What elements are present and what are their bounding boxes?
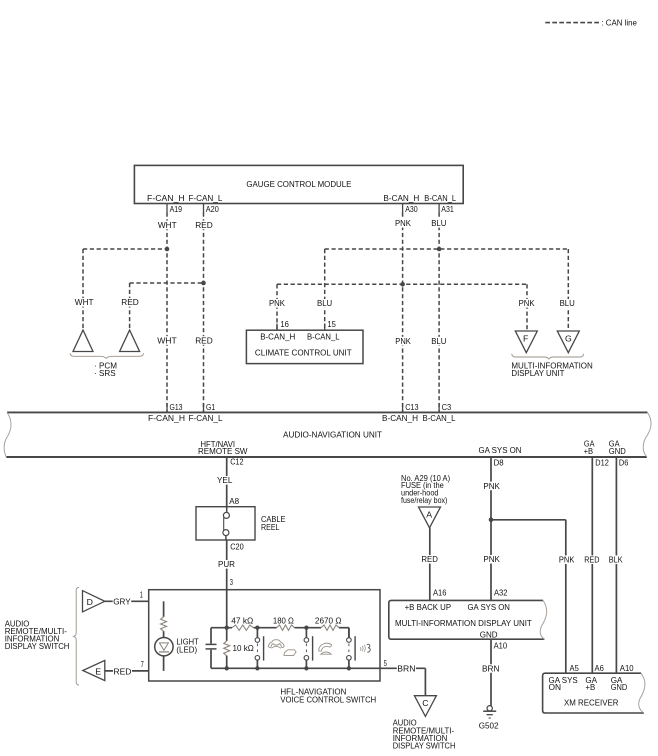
connector triangle G xyxy=(557,331,579,353)
label BLU G xyxy=(559,299,576,308)
svg-text:B-CAN_H: B-CAN_H xyxy=(260,332,295,342)
component box CABLE REEL xyxy=(196,507,255,540)
svg-text:A20: A20 xyxy=(206,204,219,214)
wire RED E to pin 7 xyxy=(105,670,149,672)
svg-text:+B: +B xyxy=(585,682,595,692)
label RED xyxy=(195,221,214,230)
svg-text:PNK: PNK xyxy=(269,298,285,308)
junction dots bus xyxy=(255,626,259,630)
wire RED fuse to A16 xyxy=(429,528,431,601)
connector triangle F xyxy=(515,331,537,353)
label BLU lower mid xyxy=(431,337,447,346)
wire YEL C12 to cable reel xyxy=(226,457,228,507)
svg-text:+B BACK UP: +B BACK UP xyxy=(405,602,452,612)
svg-text:15: 15 xyxy=(327,319,336,329)
svg-text:A10: A10 xyxy=(494,640,508,650)
svg-text:B-CAN_L: B-CAN_L xyxy=(424,193,456,203)
svg-text:F-CAN_H: F-CAN_H xyxy=(147,193,185,203)
svg-text:DISPLAY UNIT: DISPLAY UNIT xyxy=(511,368,565,378)
svg-text:GAUGE CONTROL MODULE: GAUGE CONTROL MODULE xyxy=(246,179,351,189)
cable reel slip ring xyxy=(226,507,228,513)
svg-text:YEL: YEL xyxy=(217,475,233,485)
svg-text:47 kΩ: 47 kΩ xyxy=(231,616,253,626)
underbrace PCM SRS xyxy=(70,353,144,358)
LED lamp LIGHT xyxy=(155,638,173,656)
svg-text:A6: A6 xyxy=(595,663,604,673)
unit box MULTI-INFORMATION DISPLAY UNIT xyxy=(389,600,545,639)
svg-text:C: C xyxy=(422,698,428,708)
svg-text:PNK: PNK xyxy=(395,218,411,228)
svg-text:C3: C3 xyxy=(442,402,452,412)
svg-text:RED: RED xyxy=(121,297,139,307)
svg-text:GND: GND xyxy=(609,446,626,456)
label RED D12 xyxy=(584,555,600,564)
svg-text:fuse/relay box): fuse/relay box) xyxy=(401,495,447,505)
svg-text:A31: A31 xyxy=(441,204,454,214)
svg-text:+B: +B xyxy=(584,446,594,456)
wire GRY D to pin 1 xyxy=(105,600,149,602)
wire BRN pin5 xyxy=(380,667,425,669)
svg-text:C13: C13 xyxy=(405,402,418,412)
unit box XM RECEIVER xyxy=(543,673,644,713)
junction pin3 bus xyxy=(225,626,229,630)
label PNK climate xyxy=(269,299,286,308)
svg-text:DISPLAY SWITCH: DISPLAY SWITCH xyxy=(5,641,70,651)
svg-text:D12: D12 xyxy=(595,458,609,468)
label PNK F xyxy=(518,299,536,308)
svg-text:G: G xyxy=(565,334,572,344)
junction A19 branch xyxy=(165,247,170,252)
svg-text:GND: GND xyxy=(480,629,498,639)
label RED left xyxy=(121,298,140,307)
bus top xyxy=(211,627,232,629)
svg-text:PNK: PNK xyxy=(483,481,500,491)
svg-text:10 kΩ: 10 kΩ xyxy=(233,643,255,653)
connector triangle PCM xyxy=(73,330,93,352)
junction A20 branch xyxy=(201,281,206,286)
svg-text:C20: C20 xyxy=(230,541,244,551)
svg-text:BRN: BRN xyxy=(482,663,500,673)
pin C13 xyxy=(402,403,404,412)
label PNK lower xyxy=(483,555,501,564)
connector box CLIMATE CONTROL UNIT xyxy=(246,330,363,363)
CAN line legend xyxy=(545,22,599,24)
svg-text:5: 5 xyxy=(384,658,387,668)
svg-text:B-CAN_L: B-CAN_L xyxy=(307,332,340,342)
brace audio remote switch xyxy=(74,588,79,686)
svg-text:BLK: BLK xyxy=(609,555,623,565)
junction PNK branch xyxy=(489,518,494,523)
label PUR xyxy=(218,560,236,569)
pin 15 xyxy=(324,324,326,331)
label PNK xyxy=(395,219,412,228)
svg-text:REMOTE SW: REMOTE SW xyxy=(198,446,248,456)
svg-text:D: D xyxy=(87,597,93,607)
switch contact 2 (hang up) xyxy=(305,628,307,638)
unit band AUDIO-NAVIGATION UNIT xyxy=(7,411,647,413)
svg-text:CLIMATE CONTROL UNIT: CLIMATE CONTROL UNIT xyxy=(255,348,352,358)
wire branch to SRS RED xyxy=(130,282,204,284)
svg-text:DISPLAY SWITCH: DISPLAY SWITCH xyxy=(393,741,456,751)
connector triangle C xyxy=(414,696,436,717)
svg-text:A10: A10 xyxy=(620,663,634,673)
junction A31 branch xyxy=(437,247,442,252)
pin G13 xyxy=(166,403,168,412)
svg-text:BRN: BRN xyxy=(397,664,415,674)
svg-text:GRY: GRY xyxy=(113,596,131,606)
svg-text:PNK: PNK xyxy=(559,555,575,565)
svg-text:BLU: BLU xyxy=(317,298,332,308)
wire pin1 to LED xyxy=(163,601,165,617)
svg-text:E: E xyxy=(95,666,101,676)
svg-text:3: 3 xyxy=(230,577,233,587)
connector triangle D xyxy=(83,591,105,612)
switch contact 1 (pick up) xyxy=(256,628,258,638)
svg-text:(LED): (LED) xyxy=(176,645,197,655)
label WHT left xyxy=(74,298,94,307)
svg-text:A30: A30 xyxy=(405,204,418,214)
connector triangle SRS xyxy=(120,330,140,352)
pin A19 xyxy=(166,204,168,213)
label RED lower xyxy=(195,336,214,345)
svg-text:BLU: BLU xyxy=(560,298,575,308)
svg-text:A19: A19 xyxy=(170,204,183,214)
svg-text:B-CAN_H: B-CAN_H xyxy=(383,193,419,203)
label YEL xyxy=(217,476,234,485)
svg-text:XM RECEIVER: XM RECEIVER xyxy=(564,697,619,707)
wire PNK D8 down xyxy=(490,457,492,600)
label BRN pin5 xyxy=(397,664,416,673)
svg-text:RED: RED xyxy=(195,335,213,345)
svg-text:· SRS: · SRS xyxy=(94,368,116,378)
svg-text:C12: C12 xyxy=(230,456,243,466)
svg-text:WHT: WHT xyxy=(157,335,177,345)
svg-text:F-CAN_H: F-CAN_H xyxy=(148,413,185,423)
svg-text:RED: RED xyxy=(195,220,213,230)
wire B-CAN_L A31 (dashed) xyxy=(438,213,440,412)
ground G502 xyxy=(487,706,492,711)
svg-text:B-CAN_H: B-CAN_H xyxy=(382,413,418,423)
resistor 2670 Ohm xyxy=(321,625,339,630)
label BRN gnd xyxy=(482,664,501,673)
svg-text:G502: G502 xyxy=(479,720,499,730)
svg-text:PUR: PUR xyxy=(218,559,235,569)
pin C3 xyxy=(438,403,440,412)
svg-text:180 Ω: 180 Ω xyxy=(273,616,294,626)
svg-text:RED: RED xyxy=(421,554,438,564)
icon phone hang up xyxy=(319,643,332,651)
svg-text:F: F xyxy=(523,334,528,344)
svg-text:VOICE CONTROL SWITCH: VOICE CONTROL SWITCH xyxy=(280,694,376,704)
svg-text:A32: A32 xyxy=(494,588,508,598)
svg-text:G1: G1 xyxy=(206,402,215,412)
svg-text:RED: RED xyxy=(584,555,599,565)
label BLK D6 xyxy=(608,555,623,564)
wire branch to PCM/SRS WHT xyxy=(83,248,167,250)
wire B-CAN_H A30 (dashed) xyxy=(402,213,404,412)
junction A30 branch xyxy=(400,282,405,287)
svg-text:PNK: PNK xyxy=(395,336,411,346)
wire resistor to LED xyxy=(163,631,165,637)
svg-text:REEL: REEL xyxy=(261,522,280,532)
wire RED D12 to XM xyxy=(591,457,593,673)
svg-text:GA SYS ON: GA SYS ON xyxy=(468,602,510,612)
label RED fuse xyxy=(421,555,439,564)
svg-text:MULTI-INFORMATION DISPLAY UNIT: MULTI-INFORMATION DISPLAY UNIT xyxy=(395,618,532,628)
label BLU climate xyxy=(317,299,333,308)
label BLU xyxy=(431,219,447,228)
icon talk xyxy=(360,645,365,652)
wire LED to pin 7 xyxy=(163,656,165,671)
underbrace F G xyxy=(512,354,584,359)
resistor 47 kOhm xyxy=(232,625,254,630)
resistor 10 kOhm xyxy=(226,628,228,641)
svg-text:RED: RED xyxy=(114,666,132,676)
svg-text:7: 7 xyxy=(141,659,144,669)
wire pin3 into box xyxy=(226,590,228,628)
svg-text:GA SYS ON: GA SYS ON xyxy=(479,445,522,455)
wire PUR C20 to switch xyxy=(226,540,228,590)
label RED E xyxy=(113,667,132,676)
svg-text:1: 1 xyxy=(140,589,143,599)
switch contact 3 (talk) xyxy=(348,628,350,638)
svg-text:: CAN line: : CAN line xyxy=(601,18,637,28)
capacitor branch xyxy=(210,628,212,644)
svg-text:WHT: WHT xyxy=(75,297,94,307)
pin A20 xyxy=(203,204,205,213)
svg-text:16: 16 xyxy=(280,319,289,329)
svg-text:PNK: PNK xyxy=(519,298,535,308)
connector box GAUGE CONTROL MODULE xyxy=(134,165,463,203)
label WHT lower xyxy=(157,336,178,345)
resistor LED series xyxy=(161,617,167,631)
wire BLK D6 to XM xyxy=(615,457,617,673)
label WHT xyxy=(157,221,177,230)
wire BRN GND to ground xyxy=(490,639,492,706)
svg-text:A: A xyxy=(426,510,432,520)
wire PNK branch to XM xyxy=(491,519,566,521)
svg-text:F-CAN_L: F-CAN_L xyxy=(189,413,223,423)
label PNK lower mid xyxy=(395,337,412,346)
wire F-CAN_L A20 (dashed) xyxy=(203,213,205,412)
icon phone pick up xyxy=(268,640,284,648)
svg-text:A16: A16 xyxy=(433,588,447,598)
connector triangle A xyxy=(419,507,441,528)
svg-text:G13: G13 xyxy=(170,402,183,412)
pin A31 xyxy=(438,204,440,213)
svg-text:AUDIO-NAVIGATION UNIT: AUDIO-NAVIGATION UNIT xyxy=(283,430,383,440)
svg-text:WHT: WHT xyxy=(158,220,177,230)
svg-text:D8: D8 xyxy=(494,458,504,468)
label PNK XM xyxy=(558,555,575,564)
label PNK D8 xyxy=(483,482,501,491)
wire F-CAN_H A19 (dashed) xyxy=(166,213,168,412)
pin 16 xyxy=(276,324,278,331)
bus bottom xyxy=(211,667,380,669)
svg-text:PNK: PNK xyxy=(483,554,500,564)
label GRY xyxy=(113,597,132,606)
svg-text:F-CAN_L: F-CAN_L xyxy=(188,193,222,203)
component box HFL-NAVIGATION VOICE CONTROL SWITCH xyxy=(149,590,380,681)
svg-text:B-CAN_L: B-CAN_L xyxy=(423,413,456,423)
pin G1 xyxy=(203,403,205,412)
pin A30 xyxy=(402,204,404,213)
svg-text:GND: GND xyxy=(611,682,628,692)
svg-text:BLU: BLU xyxy=(431,218,446,228)
svg-text:A5: A5 xyxy=(570,663,579,673)
svg-text:2670 Ω: 2670 Ω xyxy=(315,616,342,626)
svg-text:D6: D6 xyxy=(619,458,629,468)
svg-text:A8: A8 xyxy=(229,496,239,506)
svg-text:BLU: BLU xyxy=(431,336,446,346)
connector triangle E xyxy=(83,660,105,680)
resistor 180 Ohm xyxy=(277,625,295,630)
wire B-CAN_L branch (dashed) xyxy=(325,248,569,250)
svg-text:ON: ON xyxy=(549,682,562,692)
wire B-CAN_H branch (dashed) xyxy=(277,283,527,285)
